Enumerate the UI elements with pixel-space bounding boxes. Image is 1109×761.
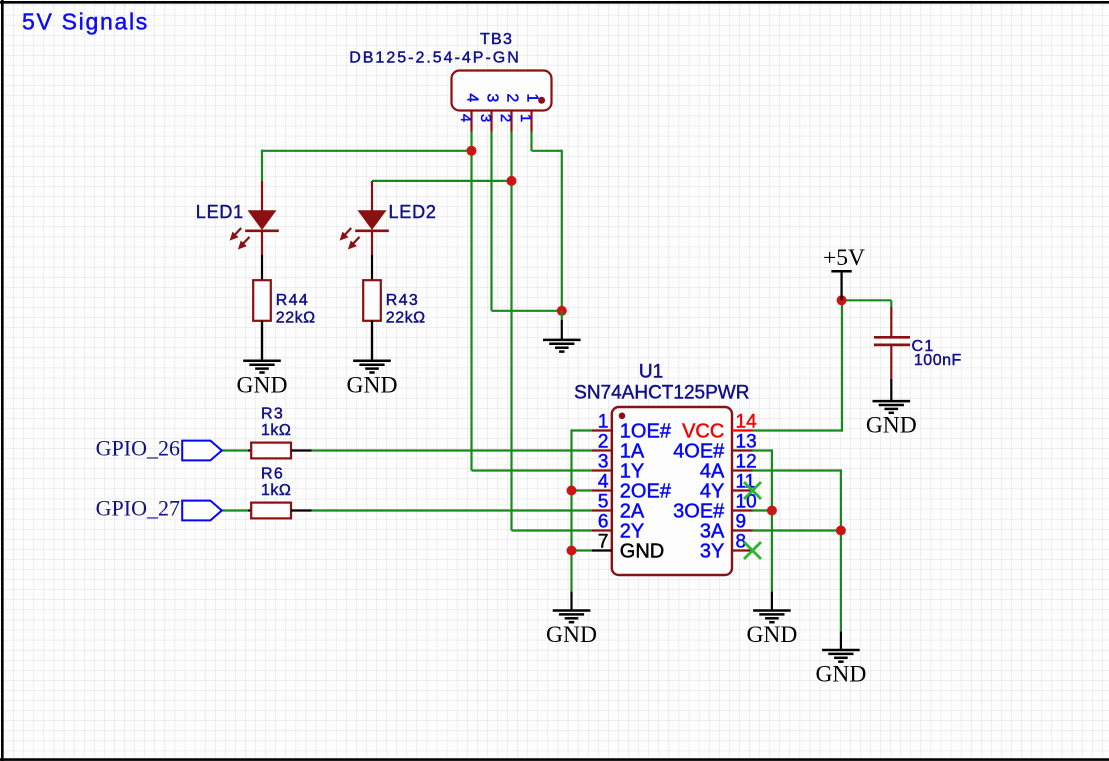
- svg-text:1A: 1A: [620, 441, 645, 463]
- wire: GPIO_27 / R6 to U1 pin 5 (2A): [222, 509, 592, 511]
- ground C1: [866, 379, 917, 439]
- ground U1 pins 13/10: [746, 592, 797, 648]
- net flag GPIO_27: [96, 495, 222, 520]
- no-connect X on U1 pin 11: [744, 482, 761, 499]
- junction: LED1 / TB3 pin 4: [467, 146, 477, 156]
- wire: U1 pin 13 (4OE#) / pin 10 (3OE#) to GND: [753, 449, 772, 591]
- svg-text:4A: 4A: [700, 461, 725, 483]
- svg-text:LED1: LED1: [196, 202, 244, 222]
- junction: TB3 pins 1+3 GND: [557, 306, 567, 316]
- svg-text:VCC: VCC: [682, 421, 724, 443]
- wire: GND net for U1 pins 1, 4, 7: [572, 429, 592, 591]
- svg-text:100nF: 100nF: [914, 352, 962, 369]
- ground under R43: [347, 321, 398, 399]
- wire: LED2 anode to TB3 pin 2 net: [372, 180, 512, 182]
- svg-text:1OE#: 1OE#: [620, 421, 672, 443]
- power +5V: [823, 245, 865, 300]
- svg-text:2: 2: [503, 93, 520, 102]
- ground TB3 pins 1+3 (no label): [543, 311, 581, 352]
- wire: TB3 pin 1 to GND junction: [532, 132, 562, 311]
- junction: U1 pin 4 GND: [567, 486, 577, 496]
- svg-text:22kΩ: 22kΩ: [276, 310, 316, 327]
- no-connect X on U1 pin 8: [744, 542, 761, 559]
- svg-text:2A: 2A: [620, 501, 645, 523]
- svg-text:12: 12: [736, 452, 757, 473]
- svg-text:5V Signals: 5V Signals: [22, 8, 149, 34]
- svg-text:7: 7: [598, 532, 609, 553]
- net flag GPIO_26: [96, 435, 222, 460]
- svg-text:10: 10: [736, 492, 757, 513]
- wire: U1 pin 14 VCC to +5V: [753, 300, 843, 431]
- connector TB3 DB125-2.54-4P-GN: [349, 31, 551, 131]
- svg-text:TB3: TB3: [480, 31, 513, 48]
- svg-text:2OE#: 2OE#: [620, 481, 672, 503]
- capacitor C1 100nF: [874, 307, 962, 379]
- svg-text:2: 2: [497, 114, 514, 122]
- svg-text:GND: GND: [746, 622, 797, 648]
- wire: GPIO_26 / R3 to U1 pin 2 (1A): [222, 449, 592, 451]
- wire: TB3 pin 4 down to U1 pin 3 (1Y): [472, 132, 592, 471]
- resistor R3 1k: [248, 405, 312, 458]
- svg-text:3A: 3A: [700, 521, 725, 543]
- junction: U1 pin 9: [836, 526, 846, 536]
- svg-text:GPIO_27: GPIO_27: [96, 495, 180, 520]
- svg-text:GND: GND: [237, 372, 288, 398]
- svg-text:GND: GND: [620, 541, 664, 563]
- svg-text:R6: R6: [261, 465, 284, 482]
- wire: LED1 anode to TB3 pin 4 net: [262, 150, 472, 181]
- svg-text:1: 1: [598, 412, 609, 433]
- svg-text:14: 14: [736, 412, 758, 433]
- ground under R44: [237, 321, 288, 399]
- svg-text:1kΩ: 1kΩ: [261, 482, 291, 499]
- LED LED1: [196, 181, 279, 255]
- ground U1 pins 1/4/7: [546, 592, 597, 648]
- wire: +5V junction to C1: [842, 300, 892, 307]
- svg-text:GPIO_26: GPIO_26: [96, 435, 180, 460]
- svg-text:4: 4: [457, 114, 474, 122]
- svg-text:1: 1: [523, 93, 540, 102]
- svg-text:5: 5: [598, 492, 609, 513]
- IC U1 SN74AHCT125PWR: [574, 362, 757, 576]
- resistor R43 22k: [363, 255, 425, 361]
- svg-text:13: 13: [736, 432, 757, 453]
- svg-text:3: 3: [483, 93, 500, 102]
- svg-text:3OE#: 3OE#: [673, 501, 725, 523]
- svg-text:3Y: 3Y: [700, 541, 724, 563]
- LED LED2: [340, 181, 437, 255]
- svg-text:4OE#: 4OE#: [673, 441, 725, 463]
- svg-text:2Y: 2Y: [620, 521, 644, 543]
- junction: +5V / C1: [837, 295, 847, 305]
- svg-text:GND: GND: [347, 372, 398, 398]
- svg-text:DB125-2.54-4P-GN: DB125-2.54-4P-GN: [349, 50, 521, 67]
- junction: U1 pin 7 GND: [567, 546, 577, 556]
- svg-text:1: 1: [517, 114, 534, 122]
- svg-text:SN74AHCT125PWR: SN74AHCT125PWR: [574, 383, 749, 404]
- svg-text:LED2: LED2: [389, 202, 437, 222]
- junction: LED2 / TB3 pin 2: [507, 176, 517, 186]
- svg-text:1Y: 1Y: [620, 461, 644, 483]
- wire: TB3 pin 2 down to U1 pin 6 (2Y): [512, 132, 592, 531]
- svg-text:+5V: +5V: [823, 245, 865, 271]
- resistor R44 22k: [253, 255, 315, 361]
- svg-text:2: 2: [598, 432, 609, 453]
- svg-text:4: 4: [598, 472, 609, 493]
- svg-text:GND: GND: [546, 622, 597, 648]
- svg-text:4: 4: [463, 93, 480, 102]
- wire: TB3 pin 3 to GND junction: [492, 132, 562, 311]
- svg-text:R44: R44: [276, 292, 309, 309]
- svg-text:GND: GND: [866, 413, 917, 439]
- svg-text:9: 9: [736, 512, 747, 533]
- resistor R6 1k: [248, 465, 312, 518]
- svg-text:3: 3: [598, 452, 609, 473]
- junction: U1 pin 10: [767, 506, 777, 516]
- svg-text:4Y: 4Y: [700, 481, 724, 503]
- wire: U1 pin 12 (4A) / pin 9 (3A) to GND: [753, 469, 841, 631]
- ground U1 pins 12/9: [815, 631, 866, 687]
- svg-text:1kΩ: 1kΩ: [261, 422, 291, 439]
- svg-text:6: 6: [598, 512, 609, 533]
- svg-text:3: 3: [477, 114, 494, 122]
- svg-text:GND: GND: [815, 662, 866, 688]
- svg-text:R3: R3: [261, 405, 284, 422]
- svg-text:R43: R43: [386, 292, 419, 309]
- svg-text:U1: U1: [639, 362, 663, 383]
- svg-text:22kΩ: 22kΩ: [386, 310, 426, 327]
